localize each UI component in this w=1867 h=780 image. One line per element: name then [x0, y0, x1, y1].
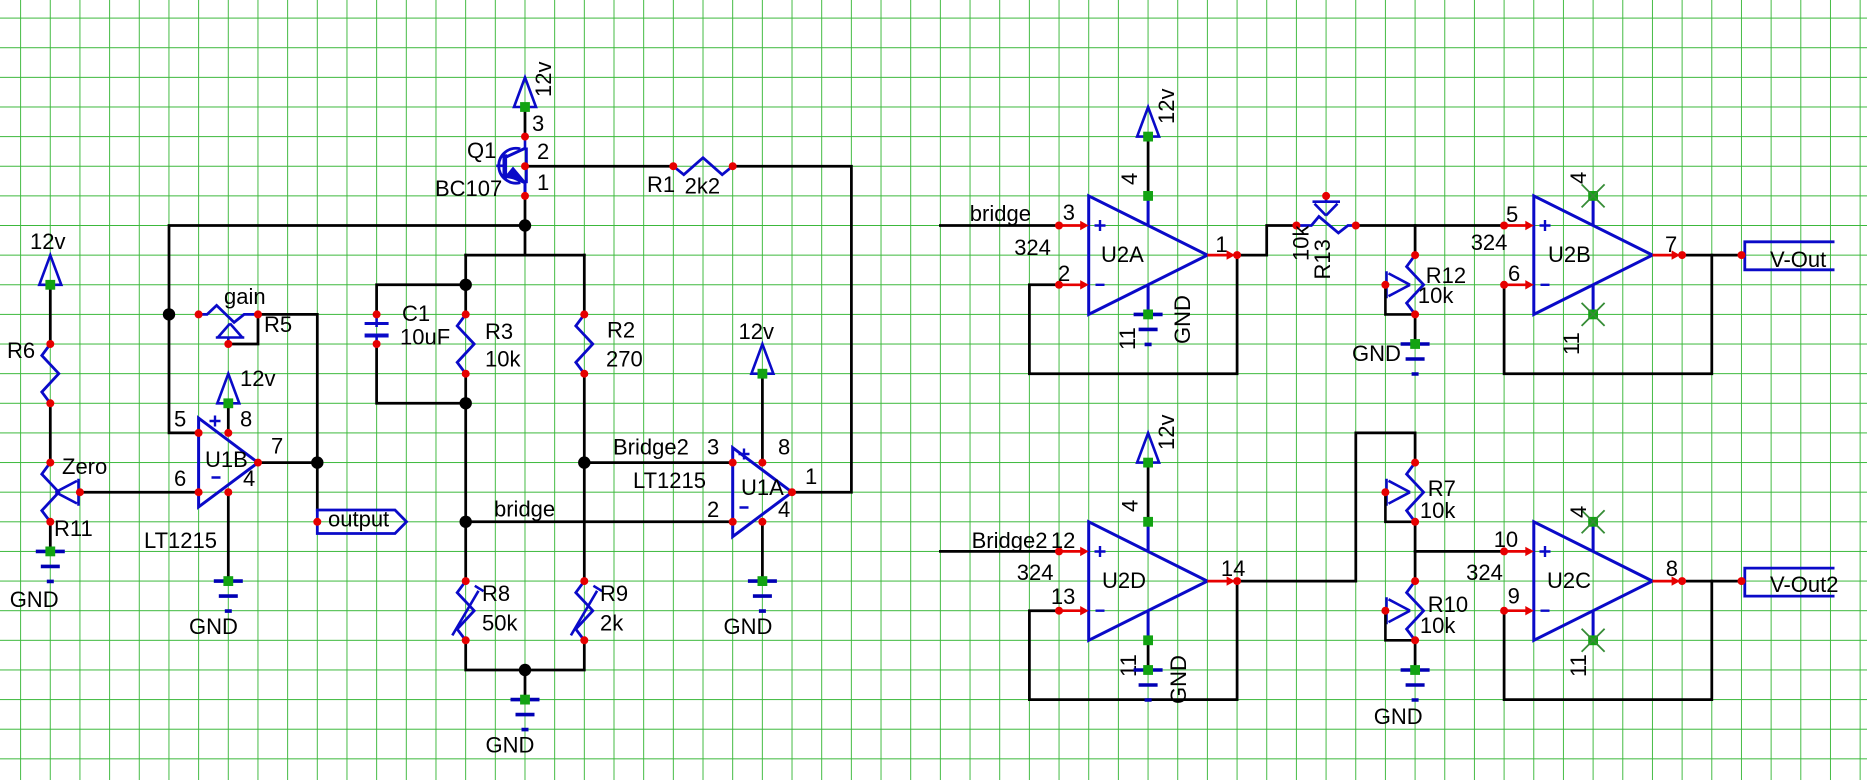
Q1 pin 3 collector	[521, 111, 544, 141]
U2A pin 2 input	[1055, 261, 1089, 290]
svg-text:12v: 12v	[240, 366, 275, 391]
trimmer R12 10k	[1381, 251, 1466, 318]
svg-text:2: 2	[707, 497, 719, 522]
svg-text:U2D: U2D	[1102, 568, 1146, 593]
svg-text:Bridge2: Bridge2	[972, 528, 1048, 553]
svg-text:324: 324	[1471, 230, 1508, 255]
supply 12v (left, above R6)	[30, 229, 65, 290]
svg-text:U1B: U1B	[205, 447, 248, 472]
svg-text:GND: GND	[1170, 295, 1195, 344]
wire U2B feedback loop	[1504, 255, 1712, 374]
wire R9 bottom to ground rail	[525, 640, 584, 670]
wire 12v to U2D pin4	[1147, 463, 1150, 522]
svg-text:R11: R11	[54, 516, 93, 541]
ground GND (U2D pin 11)	[1134, 655, 1191, 704]
wire R7 bottom to R10 top	[1414, 522, 1417, 581]
svg-text:8: 8	[778, 435, 790, 460]
U1B pin 4	[224, 466, 255, 496]
junction node U1B output	[311, 456, 323, 468]
svg-text:Bridge2: Bridge2	[613, 435, 689, 460]
U1A pin 3	[707, 435, 737, 467]
resistor R1 2k2	[647, 158, 737, 199]
wire Bridge2 stub to U2D pin12	[940, 550, 1059, 553]
svg-text:bridge: bridge	[494, 497, 555, 522]
U2A pin 11 GND	[1115, 295, 1195, 350]
wire U1B pin5 to gain node	[169, 314, 199, 433]
svg-text:bridge: bridge	[970, 201, 1031, 226]
junction node C1 top	[460, 279, 472, 291]
wire feedback node A up and along top to Q1 emitter junction	[169, 226, 525, 315]
svg-text:1: 1	[1215, 232, 1227, 257]
wire 12v to Q1 collector	[524, 107, 527, 137]
svg-text:324: 324	[1017, 560, 1054, 585]
U1A pin 2	[707, 497, 737, 526]
resistor R6	[7, 338, 59, 407]
U2C pin 11 no-connect	[1566, 629, 1605, 677]
wire C1 bottom branch	[377, 344, 466, 403]
wire R10 bottom to GND	[1414, 640, 1417, 670]
U1B pin 8	[224, 407, 252, 437]
svg-text:4: 4	[1566, 172, 1591, 184]
resistor R2 270	[576, 310, 643, 377]
svg-text:10: 10	[1494, 527, 1518, 552]
svg-text:10k: 10k	[1420, 613, 1456, 638]
svg-text:4: 4	[778, 497, 790, 522]
svg-text:GND: GND	[1352, 341, 1401, 366]
wire Bridge2 net	[584, 461, 732, 464]
wire R8 bottom to ground rail	[466, 640, 525, 670]
preset R9 2k	[571, 577, 628, 644]
svg-text:GND: GND	[1374, 704, 1423, 729]
trimmer R7 10k	[1381, 459, 1456, 526]
wire 12v to U1B pin8	[227, 403, 230, 433]
svg-text:GND: GND	[724, 614, 773, 639]
svg-text:4: 4	[1117, 173, 1142, 185]
svg-text:R13: R13	[1310, 239, 1335, 279]
svg-text:8: 8	[240, 407, 252, 432]
net flag output	[313, 507, 406, 534]
svg-text:Zero: Zero	[62, 454, 107, 479]
wire U1A pin4 to GND	[761, 522, 764, 581]
svg-text:14: 14	[1221, 556, 1245, 581]
svg-text:BC107: BC107	[435, 176, 502, 201]
svg-text:1: 1	[805, 464, 817, 489]
op-amp U2A LM324	[1089, 196, 1208, 315]
net flag V-Out2	[1738, 568, 1839, 597]
U2C pin 8 output	[1653, 556, 1687, 586]
U1B pin 5	[174, 407, 203, 437]
svg-text:12v: 12v	[30, 229, 65, 254]
svg-text:GND: GND	[486, 733, 535, 758]
svg-text:2k2: 2k2	[685, 174, 720, 199]
svg-text:U2B: U2B	[1548, 242, 1591, 267]
svg-text:12v: 12v	[1154, 415, 1179, 450]
wire R11 wiper to U1B pin6	[80, 491, 199, 494]
svg-text:4: 4	[1118, 500, 1143, 512]
transistor Q1 BC107	[435, 138, 526, 201]
svg-text:V-Out: V-Out	[1770, 247, 1826, 272]
wire branch down to R12	[1414, 226, 1417, 256]
svg-text:6: 6	[1508, 261, 1520, 286]
trimmer R13 10k	[1289, 192, 1360, 280]
wire R2 bottom through Bridge2 junction to R9	[583, 374, 586, 581]
wire 12v to U2A pin4	[1147, 137, 1150, 196]
svg-text:12v: 12v	[531, 62, 556, 97]
U2B pin 7 output	[1653, 232, 1687, 260]
svg-text:2: 2	[537, 139, 549, 164]
svg-text:8: 8	[1666, 556, 1678, 581]
junction node C1 bottom	[460, 397, 472, 409]
svg-text:R3: R3	[485, 319, 513, 344]
svg-text:5: 5	[1506, 202, 1518, 227]
U2C pin 4 no-connect	[1566, 506, 1605, 534]
wire ground rail to GND	[524, 670, 527, 700]
wire bridge net	[466, 520, 733, 523]
svg-text:7: 7	[1665, 232, 1677, 257]
supply 12v (above U2D)	[1137, 415, 1179, 468]
U2D pin 11 label	[1116, 635, 1153, 677]
U1A pin 8	[758, 435, 790, 467]
svg-text:C1: C1	[402, 301, 430, 326]
U2D pin 14 output	[1207, 556, 1245, 586]
svg-text:LT1215: LT1215	[633, 468, 706, 493]
svg-text:12v: 12v	[1154, 89, 1179, 124]
svg-text:10k: 10k	[1420, 498, 1456, 523]
svg-text:R6: R6	[7, 338, 35, 363]
wire right branch down to R2	[583, 255, 586, 314]
capacitor C1 10uF	[365, 301, 451, 350]
wire U2C feedback loop	[1504, 581, 1712, 700]
op-amp U2D LM324	[1089, 522, 1208, 641]
Q1 pin 2 base	[521, 139, 549, 170]
resistor R3 10k	[457, 310, 521, 377]
wire R3 bottom through bridge junction to R8	[464, 374, 467, 581]
op-amp U1B LT1215	[199, 416, 258, 507]
svg-text:6: 6	[174, 466, 186, 491]
svg-text:R1: R1	[647, 172, 675, 197]
Q1 pin 1 emitter	[521, 170, 549, 200]
wire R11 bottom to GND	[49, 522, 52, 552]
wire U2C output to V-Out2	[1682, 580, 1741, 583]
U2A pin 3 input	[1055, 200, 1089, 230]
wire R12 bottom to GND	[1414, 314, 1417, 344]
ground GND (below R12)	[1352, 339, 1430, 374]
wire U2D pin11 to GND	[1147, 640, 1150, 670]
svg-text:13: 13	[1051, 584, 1075, 609]
svg-text:4: 4	[243, 466, 255, 491]
junction node Q1 emitter / feedback	[519, 219, 531, 231]
wire left branch down to R3	[464, 255, 467, 314]
wire R1 to U1A output	[733, 166, 852, 492]
supply 12v (above U1B)	[217, 366, 275, 408]
wire U2A output to R13	[1237, 226, 1296, 256]
wire bridge stub to U2A pin3	[940, 224, 1059, 227]
svg-text:3: 3	[707, 435, 719, 460]
svg-text:10k: 10k	[485, 347, 521, 372]
wire 12v to R6 top	[49, 285, 52, 344]
wire R5 right pin down to wiper	[228, 314, 258, 344]
U2B pin 11 no-connect	[1559, 303, 1605, 355]
svg-text:9: 9	[1508, 584, 1520, 609]
wire R13 to U2B pin5	[1356, 224, 1504, 227]
svg-text:LT1215: LT1215	[144, 528, 217, 553]
junction node gain/feedback	[163, 308, 175, 320]
svg-text:U2A: U2A	[1101, 242, 1144, 267]
wire U2D feedback loop	[1029, 581, 1237, 700]
svg-text:10k: 10k	[1418, 283, 1454, 308]
U1B pin 6	[174, 466, 203, 496]
svg-text:R2: R2	[607, 318, 635, 343]
wire Q1 emitter to junction and split	[524, 196, 527, 255]
svg-text:GND: GND	[10, 587, 59, 612]
U1A pin 4	[758, 497, 790, 526]
op-amp U2C LM324	[1534, 522, 1653, 641]
supply 12v (above U1A)	[739, 319, 774, 379]
op-amp U2B LM324	[1534, 196, 1653, 315]
U2C pin 9 input	[1500, 584, 1534, 616]
svg-text:V-Out2: V-Out2	[1770, 572, 1838, 597]
ground GND (below U1A)	[724, 576, 777, 639]
preset R8 50k	[452, 577, 518, 644]
U1A pin 1 output	[788, 464, 817, 496]
U2B pin 5 input	[1500, 202, 1534, 230]
svg-text:12: 12	[1051, 528, 1075, 553]
wire U2A feedback loop	[1029, 255, 1237, 374]
U2D pin 13 input	[1051, 584, 1089, 615]
trimmer R10 10k	[1381, 577, 1468, 644]
svg-text:R5: R5	[264, 312, 292, 337]
svg-text:324: 324	[1466, 560, 1503, 585]
svg-text:1: 1	[537, 170, 549, 195]
U2D pin 12 input	[1051, 528, 1089, 556]
wire divider tap to U2C pin10	[1415, 550, 1504, 553]
junction node ground rail	[519, 664, 531, 676]
wire 12v to U1A pin8	[761, 374, 764, 463]
ground GND (below U1B)	[189, 576, 243, 639]
svg-text:GND: GND	[189, 614, 238, 639]
svg-text:output: output	[328, 507, 389, 532]
svg-text:11: 11	[1115, 327, 1140, 350]
U2A pin 4 label	[1117, 173, 1153, 201]
ground GND (center)	[486, 695, 540, 758]
wire R6 bottom to R11 top	[49, 403, 52, 462]
wire U1B pin7 to output junction	[258, 461, 317, 464]
wire C1 top branch	[377, 285, 466, 315]
op-amp U1A LT1215	[733, 448, 792, 537]
svg-text:11: 11	[1566, 654, 1591, 677]
svg-text:3: 3	[1063, 200, 1075, 225]
svg-text:10uF: 10uF	[400, 325, 450, 350]
U2B pin 6 input	[1500, 261, 1534, 290]
supply 12v (above U2A)	[1137, 89, 1179, 142]
wire U1B pin4 to GND	[227, 492, 230, 581]
U1B pin 7 output	[254, 434, 283, 467]
junction node bridge	[460, 516, 472, 528]
svg-text:7: 7	[271, 434, 283, 459]
U2C pin 10 input	[1494, 527, 1534, 556]
U2D pin 4 label	[1118, 500, 1154, 527]
svg-text:2: 2	[1058, 261, 1070, 286]
svg-text:R9: R9	[600, 581, 628, 606]
svg-text:11: 11	[1116, 654, 1141, 677]
wire output junction to output flag	[316, 463, 319, 510]
svg-text:50k: 50k	[482, 611, 518, 636]
wire U2B output to V-Out	[1682, 254, 1741, 257]
trimmer R5 gain	[195, 284, 293, 348]
supply 12v (above Q1)	[514, 62, 556, 112]
svg-text:324: 324	[1014, 235, 1051, 260]
svg-text:4: 4	[1566, 506, 1591, 518]
svg-text:GND: GND	[1166, 655, 1191, 704]
svg-text:12v: 12v	[739, 319, 774, 344]
ground GND (left column)	[10, 547, 65, 613]
wire Q1 base to R1	[525, 165, 673, 168]
wire U2D output to R7	[1237, 433, 1415, 581]
svg-text:U2C: U2C	[1547, 568, 1591, 593]
net flag V-Out	[1738, 242, 1835, 272]
svg-text:2k: 2k	[600, 611, 624, 636]
svg-text:R8: R8	[482, 581, 510, 606]
svg-text:3: 3	[532, 111, 544, 136]
svg-text:270: 270	[606, 347, 643, 372]
wire R5 right to output junction	[258, 314, 317, 462]
svg-text:11: 11	[1559, 332, 1584, 355]
junction node Bridge2	[578, 456, 590, 468]
ground GND (below R10)	[1374, 665, 1430, 729]
trimmer R11 Zero	[42, 454, 107, 541]
svg-text:5: 5	[174, 407, 186, 432]
U2B pin 4 no-connect	[1566, 172, 1605, 208]
svg-text:Q1: Q1	[467, 138, 496, 163]
svg-text:gain: gain	[224, 284, 266, 309]
U2A pin 1 output	[1207, 232, 1241, 260]
